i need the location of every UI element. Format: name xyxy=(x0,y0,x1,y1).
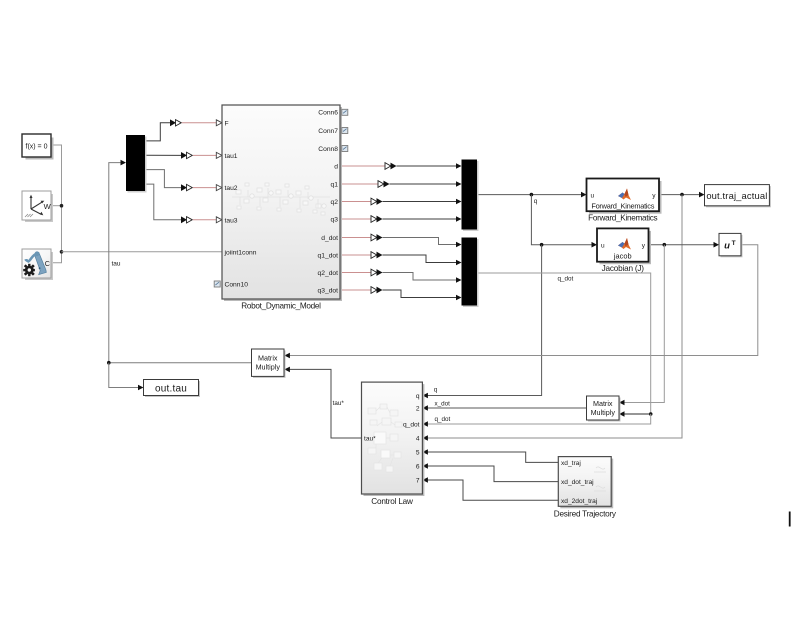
arrow: into CL 2 xyxy=(422,405,428,411)
wire: world frame W to net xyxy=(51,205,62,207)
svg-text:Control Law: Control Law xyxy=(371,497,413,506)
port triangle tau1 xyxy=(216,152,222,158)
wire: PS out q1 (pink) xyxy=(340,183,378,185)
arrow: into out.tau xyxy=(138,385,144,391)
svg-text:u: u xyxy=(591,192,595,199)
content preview inside Robot_Dynamic_Model xyxy=(232,183,330,215)
arrow: into u^T xyxy=(714,242,720,248)
arrow: into CL 7 xyxy=(422,477,428,483)
wire: mux1 output q to Forward_Kinematics xyxy=(477,194,581,196)
wire: PS line to port tau1 (pink) xyxy=(193,154,217,156)
subsystem Robot_Dynamic_Model xyxy=(222,105,342,311)
wire: tau down to out.tau xyxy=(109,363,139,388)
svg-text:q1_dot: q1_dot xyxy=(318,253,339,260)
svg-text:q_dot: q_dot xyxy=(435,416,451,423)
converter pair tau1 row xyxy=(181,152,187,159)
port triangle tau3 xyxy=(216,217,222,223)
wire: q down to Control Law port q xyxy=(427,245,542,396)
node: junction W net xyxy=(60,204,64,208)
subsystem Control Law xyxy=(362,382,425,506)
svg-text:x_dot: x_dot xyxy=(435,400,451,407)
svg-text:2: 2 xyxy=(416,405,420,412)
svg-text:u: u xyxy=(601,242,605,249)
svg-text:jacob: jacob xyxy=(613,252,632,261)
wire: PS out q2_dot (pink) xyxy=(340,272,371,274)
svg-text:Forward_Kinematics: Forward_Kinematics xyxy=(591,202,654,211)
to workspace out.traj_actual xyxy=(705,185,771,208)
MATLAB function block Forward_Kinematics xyxy=(587,179,662,223)
svg-text:F: F xyxy=(225,120,229,127)
content preview inside Control Law xyxy=(368,404,402,472)
arrow: into CL 5 xyxy=(422,449,428,455)
wire: q_dot into MM2 bottom xyxy=(624,413,651,415)
MATLAB function block Jacobian xyxy=(597,228,651,273)
svg-text:Conn7: Conn7 xyxy=(318,128,338,135)
arrow: into FK u xyxy=(581,192,587,198)
node: q junction xyxy=(530,193,534,197)
svg-text:5: 5 xyxy=(416,449,420,456)
svg-text:q_dot: q_dot xyxy=(403,421,420,428)
mux1 q xyxy=(462,160,479,232)
wire: PS out d (pink) xyxy=(340,165,385,167)
text cursor mark xyxy=(789,512,791,527)
wire: FK output to out.traj_actual xyxy=(659,194,700,196)
to workspace out.tau xyxy=(144,380,201,398)
wire: J branch down to Matrix Multiply 2 top input xyxy=(624,245,665,403)
wire: q_dot down to Control Law q_dot xyxy=(427,414,651,424)
svg-text:q: q xyxy=(416,393,420,400)
converter pair F row xyxy=(170,119,176,126)
svg-text:Desired Trajectory: Desired Trajectory xyxy=(554,509,617,518)
svg-text:out.tau: out.tau xyxy=(155,383,187,394)
wire: q3 to mux1 xyxy=(383,218,457,220)
wire: PS out q3_dot (pink) xyxy=(340,289,371,291)
mux2 q_dot xyxy=(462,238,479,308)
arrow: into MM2 bottom xyxy=(619,411,625,417)
port triangle F xyxy=(216,120,222,126)
svg-text:out.traj_actual: out.traj_actual xyxy=(706,190,767,201)
arrow: into MM1 bottom xyxy=(284,367,290,373)
wire: x branch down to Control Law port 4 xyxy=(427,195,682,438)
arrow: into CL 4 xyxy=(422,435,428,441)
svg-text:Conn6: Conn6 xyxy=(318,110,338,117)
node: jacobian output junction xyxy=(663,243,667,247)
svg-text:Forward_Kinematics: Forward_Kinematics xyxy=(588,214,657,223)
physical port icon Conn10 xyxy=(214,281,220,287)
converter pair tau3 row xyxy=(181,216,187,223)
wire: q1_dot to mux2 xyxy=(383,255,457,263)
svg-text:7: 7 xyxy=(416,477,420,484)
wire: mechanism config C to net xyxy=(51,252,62,263)
wire: demux out2 to converter tau1 xyxy=(145,154,181,156)
arrow: into CL q xyxy=(422,393,428,399)
svg-text:Jacobian (J): Jacobian (J) xyxy=(602,264,645,273)
wire: q branch down to jacobian xyxy=(531,195,592,245)
wire: PS out d_dot (pink) xyxy=(340,237,371,239)
subsystem Desired Trajectory xyxy=(554,457,617,519)
svg-text:q3_dot: q3_dot xyxy=(318,288,339,295)
svg-text:q2: q2 xyxy=(331,199,339,206)
arrow: into MM2 top xyxy=(619,400,625,406)
svg-text:q_dot: q_dot xyxy=(558,276,574,283)
converter pair q3 row xyxy=(371,216,377,223)
matrix multiply 2 xyxy=(587,396,621,422)
wire: PS line to port tau3 (pink) xyxy=(193,219,217,221)
arrow: into MM1 top xyxy=(284,353,290,359)
wire: demux out1 to converter F xyxy=(145,123,170,141)
svg-text:4: 4 xyxy=(416,435,420,442)
wire: MM2 output x_dot to Control Law port 2 xyxy=(427,407,587,409)
svg-text:q: q xyxy=(434,386,438,393)
svg-text:tau*: tau* xyxy=(364,435,376,442)
demux tau xyxy=(126,135,147,193)
svg-text:Conn10: Conn10 xyxy=(225,282,249,289)
physical port icon Conn8 xyxy=(342,146,348,152)
arrow: into CL 6 xyxy=(422,463,428,469)
physical port icon Conn7 xyxy=(342,128,348,134)
svg-text:d_dot: d_dot xyxy=(321,235,338,242)
converter pair tau2 row xyxy=(181,184,187,191)
mechanism configuration block C xyxy=(22,249,53,280)
svg-text:q: q xyxy=(534,198,538,205)
svg-text:tau2: tau2 xyxy=(225,185,238,192)
converter pair q1 row xyxy=(378,181,384,188)
svg-text:Multiply: Multiply xyxy=(591,408,616,417)
wire: d_dot to mux2 xyxy=(383,238,457,245)
svg-text:xd_2dot_traj: xd_2dot_traj xyxy=(561,498,598,505)
solver configuration block f(x)=0 xyxy=(22,134,54,160)
arrow: into CL q_dot xyxy=(422,421,428,427)
wire: demux out3 to converter tau2 xyxy=(145,170,181,188)
svg-text:tau1: tau1 xyxy=(225,153,238,160)
wire: q1 to mux1 xyxy=(390,183,457,185)
arrow: into demux xyxy=(121,160,127,166)
math transpose block u^T xyxy=(719,233,743,257)
converter pair q1_dot row xyxy=(371,252,377,259)
svg-text:xd_traj: xd_traj xyxy=(561,460,581,467)
svg-text:C: C xyxy=(45,259,50,268)
wire: physical net to joiint1conn port xyxy=(62,251,223,253)
matrix multiply 1 xyxy=(252,349,286,378)
svg-text:Matrix: Matrix xyxy=(258,354,278,363)
wire: MM1 output to tau node xyxy=(109,362,252,364)
wire: PS out q2 (pink) xyxy=(340,201,371,203)
content preview inside Desired Trajectory xyxy=(594,467,606,491)
svg-text:6: 6 xyxy=(416,463,420,470)
wire: jacobian output to transpose xyxy=(649,244,715,246)
wire: PS line to port tau2 (pink) xyxy=(193,187,217,189)
svg-text:f(x) = 0: f(x) = 0 xyxy=(26,144,48,151)
converter pair d_dot row xyxy=(371,234,377,241)
svg-text:xd_dot_traj: xd_dot_traj xyxy=(561,479,594,486)
wire: PS out q1_dot (pink) xyxy=(340,254,371,256)
wire: PS out q3 (pink) xyxy=(340,218,371,220)
svg-text:tau3: tau3 xyxy=(225,217,238,224)
svg-text:T: T xyxy=(732,240,736,247)
world frame block W xyxy=(22,191,53,222)
converter pair d row xyxy=(385,163,391,170)
converter pair q3_dot row xyxy=(371,287,377,294)
wire: xd_2dot_traj to Control Law 7 xyxy=(427,480,558,500)
svg-text:Robot_Dynamic_Model: Robot_Dynamic_Model xyxy=(241,302,321,311)
wire: d to mux1 xyxy=(397,165,457,167)
svg-text:q2_dot: q2_dot xyxy=(318,270,339,277)
wire: q3_dot to mux2 xyxy=(383,290,457,298)
svg-text:Matrix: Matrix xyxy=(593,399,613,408)
physical port icon Conn6 xyxy=(342,109,348,115)
arrow: into out.traj_actual xyxy=(699,192,705,198)
node: q branch junction to control law xyxy=(540,243,544,247)
wire: demux out4 to converter tau3 xyxy=(145,184,181,220)
svg-text:joiint1conn: joiint1conn xyxy=(224,249,257,256)
wire: xd_dot_traj to Control Law 6 xyxy=(427,466,558,482)
wire: xd_traj to Control Law 5 xyxy=(427,452,558,462)
svg-text:u: u xyxy=(724,241,730,252)
svg-text:W: W xyxy=(44,202,52,211)
wire: mux2 output q_dot to MM2 bottom input xyxy=(477,273,651,414)
svg-text:d: d xyxy=(334,164,338,171)
wire: PS line to port F (pink) xyxy=(182,122,217,124)
converter pair q2 row xyxy=(371,198,377,205)
wire: q2_dot to mux2 xyxy=(383,273,457,281)
svg-text:Multiply: Multiply xyxy=(256,363,281,372)
wire: tau feedback vertical into demux xyxy=(109,163,121,363)
wire: solver config f(x)=0 to physical net vertical xyxy=(51,145,62,252)
node: tau junction xyxy=(107,361,111,365)
svg-text:tau*: tau* xyxy=(333,400,345,407)
converter pair q2_dot row xyxy=(371,269,377,276)
wire: q2 to mux1 xyxy=(383,201,457,203)
wire: u^T output loop to Matrix Multiply 1 top input xyxy=(289,245,758,356)
wire: Control Law tau* output to MM1 bottom input xyxy=(289,369,362,438)
node: FK output junction xyxy=(680,193,684,197)
svg-text:q1: q1 xyxy=(331,182,339,189)
node: q_dot junction xyxy=(649,412,653,416)
svg-text:q3: q3 xyxy=(331,217,339,224)
arrow: into jacob u xyxy=(592,242,598,248)
port triangle tau2 xyxy=(216,185,222,191)
svg-text:tau: tau xyxy=(112,261,121,268)
svg-text:Conn8: Conn8 xyxy=(318,146,338,153)
node: junction C net xyxy=(60,250,64,254)
